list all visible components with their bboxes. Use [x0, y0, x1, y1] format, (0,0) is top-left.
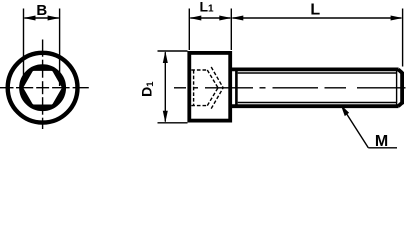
dimension D1: extension lines — [158, 50, 188, 52]
dimension B: dimension line — [24, 17, 58, 19]
dimension L line with arrows — [233, 17, 402, 19]
dimension L1 line with arrows — [190, 17, 230, 19]
end chamfer edges — [398, 69, 402, 73]
hex socket (flat-top hexagon inscribed in socket circle) — [21, 69, 64, 106]
dimension B: right extension line — [59, 9, 61, 87]
shared extension line at head/shaft junction — [230, 9, 232, 51]
shaft outline — [230, 69, 403, 106]
dimension D1: top arrowhead — [163, 51, 168, 63]
svg-text:B: B — [36, 2, 47, 19]
thread callout M: leader line — [341, 106, 368, 148]
dimension L: left arrowhead — [231, 16, 243, 21]
thread minor diameter line (bottom) — [238, 102, 397, 104]
side view: head rectangle — [189, 53, 230, 121]
side view: screw centerline — [174, 87, 406, 89]
svg-text:D1: D1 — [139, 81, 157, 97]
head front view: socket chamfer circle — [21, 66, 64, 109]
svg-text:M: M — [375, 133, 388, 150]
dimension L: extension line right (shaft end) — [402, 9, 404, 67]
dimension L1: left arrowhead — [189, 16, 201, 21]
shaft end face — [400, 72, 404, 104]
thread runout line — [235, 69, 238, 106]
front view vertical centerline — [42, 40, 44, 130]
dimension D1: dimension line with arrows — [164, 52, 166, 121]
dimension L1: extension line left (head left face) — [188, 9, 190, 51]
dimension B: right arrowhead — [48, 16, 60, 21]
socket hidden lines: across-flats dashed lines — [191, 67, 223, 109]
head front view: outer circle (head OD) — [8, 53, 78, 123]
socket bottom outer chevron — [211, 67, 223, 88]
svg-text:L1: L1 — [199, 0, 214, 15]
socket bottom inner chevron — [207, 70, 218, 88]
dimension B: left extension line — [23, 9, 25, 87]
svg-text:L: L — [310, 1, 320, 18]
front view horizontal centerline — [0, 87, 89, 89]
thread callout M: leader underline — [368, 147, 397, 149]
dimension B: left arrowhead — [24, 16, 36, 21]
socket back vertical dashed line — [193, 70, 195, 106]
dimension L: right arrowhead — [391, 16, 403, 21]
thread callout M: arrowhead — [341, 105, 350, 117]
dimension L1: right arrowhead — [219, 16, 231, 21]
dimension D1: bottom arrowhead — [163, 111, 168, 123]
thread minor diameter line (top) — [238, 72, 397, 74]
chamfer start line — [396, 69, 398, 106]
